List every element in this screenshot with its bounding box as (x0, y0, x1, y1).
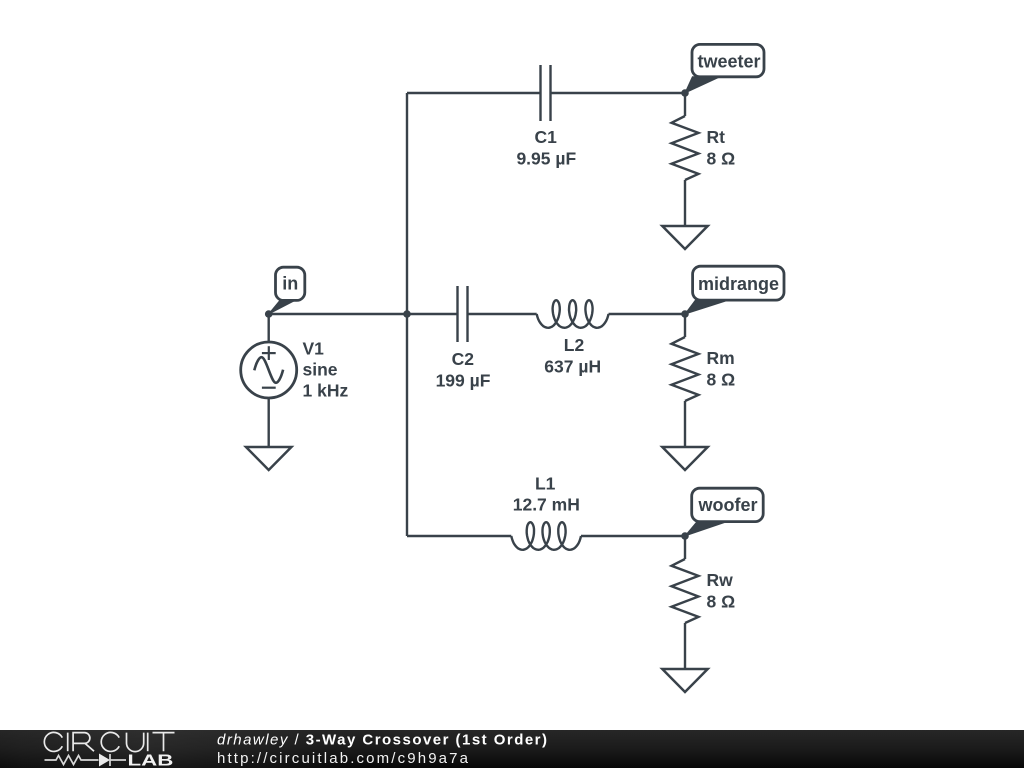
ground (V1) (246, 447, 291, 470)
svg-text:Rw: Rw (707, 570, 734, 590)
ground (Rw) (662, 669, 707, 692)
svg-text:sine: sine (303, 359, 338, 379)
svg-text:8 Ω: 8 Ω (707, 369, 736, 389)
wire: mid row from in node to C2 left plate (269, 313, 458, 315)
svg-text:8 Ω: 8 Ω (707, 148, 736, 168)
voltage source V1 (241, 338, 349, 400)
svg-text:drhawley / 3-Way Crossover (1s: drhawley / 3-Way Crossover (1st Order) (217, 732, 547, 749)
node dot: woofer (681, 532, 689, 540)
svg-text:12.7 mH: 12.7 mH (513, 494, 580, 514)
svg-text:L1: L1 (535, 473, 556, 493)
resistor Rm (672, 337, 736, 401)
svg-text:http://circuitlab.com/c9h9a7a: http://circuitlab.com/c9h9a7a (217, 750, 469, 767)
wire: Rt bottom lead to ground (684, 180, 686, 226)
inductor L1 (511, 473, 581, 550)
wire: bottom row from L1 to woofer node (581, 535, 685, 537)
wire: top row from bus to C1 left plate (407, 92, 541, 94)
wire: Rw bottom lead to ground (684, 623, 686, 669)
footer bar (0, 730, 1024, 768)
wire: Rm bottom lead to ground (684, 401, 686, 447)
ground (Rt) (662, 226, 707, 249)
svg-text:199 µF: 199 µF (436, 370, 491, 390)
capacitor C1 (516, 65, 576, 168)
svg-text:C1: C1 (535, 127, 558, 147)
svg-text:8 Ω: 8 Ω (707, 591, 736, 611)
wire: V1 top lead from in node to source circle (268, 314, 270, 342)
wire: vertical bus from top row to bottom row (406, 93, 408, 536)
svg-text:637 µH: 637 µH (544, 356, 601, 376)
svg-text:LAB: LAB (128, 752, 174, 768)
wire: Rm top lead (684, 314, 686, 337)
wire: mid row from C2 right plate to L2 (468, 313, 537, 315)
flag: tweeter (685, 44, 764, 93)
svg-text:V1: V1 (303, 338, 325, 358)
svg-text:9.95 µF: 9.95 µF (516, 148, 576, 168)
inductor L2 (537, 300, 609, 376)
svg-text:Rm: Rm (707, 348, 735, 368)
wire: bottom row from bus corner to L1 (407, 535, 511, 537)
svg-text:L2: L2 (564, 335, 585, 355)
node dot: in (265, 310, 273, 318)
node dot: tweeter (681, 89, 689, 97)
resistor Rw (672, 559, 736, 623)
ground (Rm) (662, 447, 707, 470)
svg-text:midrange: midrange (698, 274, 779, 294)
wire: V1 bottom lead from source circle to ground (268, 398, 270, 447)
svg-text:in: in (282, 273, 298, 293)
flag: midrange (685, 266, 784, 314)
svg-text:C2: C2 (452, 349, 475, 369)
resistor Rt (672, 116, 736, 180)
capacitor C2 (436, 286, 491, 390)
node dot: midrange (681, 310, 689, 318)
node dot: bus junction (403, 310, 411, 318)
logo diode triangle (99, 754, 110, 767)
svg-text:woofer: woofer (697, 495, 757, 515)
wire: Rw top lead (684, 536, 686, 559)
flag: in (269, 267, 305, 314)
svg-text:tweeter: tweeter (697, 51, 760, 71)
logo CIRCUIT (hand-drawn thin letters) (44, 732, 174, 751)
wire: top row from C1 right plate to tweeter node (551, 92, 686, 94)
svg-text:Rt: Rt (707, 127, 726, 147)
wire: Rt top lead (684, 93, 686, 116)
svg-text:1 kHz: 1 kHz (303, 380, 349, 400)
flag: woofer (685, 488, 763, 536)
wire: mid row from L2 to midrange node (609, 313, 686, 315)
logo squiggle: resistor + diode (45, 754, 127, 766)
